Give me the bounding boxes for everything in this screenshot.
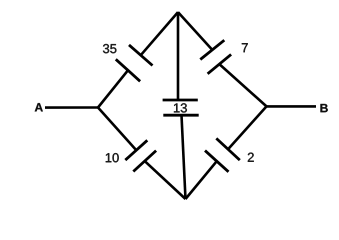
- wire left junction to capacitor C1 lower plate: [98, 70, 128, 107]
- wire top junction to capacitor C2 upper plate: [178, 12, 212, 50]
- wire capacitor C1 upper plate to top junction: [141, 12, 178, 55]
- wire capacitor C5 upper plate to right junction: [228, 106, 266, 149]
- capacitor C5 (2) plates: [205, 138, 240, 171]
- capacitor C4 (10) plates: [125, 140, 156, 171]
- capacitor C1 (35) plates: [116, 45, 153, 81]
- wire capacitor C4 lower plate to bottom junction: [145, 161, 186, 199]
- capacitor C2 (7) plates: [200, 40, 231, 74]
- value label 13: [174, 103, 187, 112]
- value label 7: [242, 43, 248, 52]
- value label 35: [103, 44, 116, 53]
- node B: [320, 104, 327, 112]
- wire capacitor C2 lower plate to right junction: [219, 64, 266, 106]
- wire top junction to capacitor C3 top plate: [177, 12, 180, 100]
- value label 2: [248, 153, 254, 162]
- wire right junction to node B: [267, 105, 317, 108]
- node A: [35, 103, 43, 111]
- wire capacitor C3 bottom plate to bottom junction: [182, 115, 186, 199]
- wire left junction to capacitor C4 upper plate: [98, 108, 136, 151]
- wire A to left junction: [45, 106, 98, 109]
- value label 10: [106, 153, 119, 162]
- wire bottom junction to capacitor C5 lower plate: [186, 161, 217, 199]
- capacitor C3 (13) plates: [163, 100, 199, 115]
